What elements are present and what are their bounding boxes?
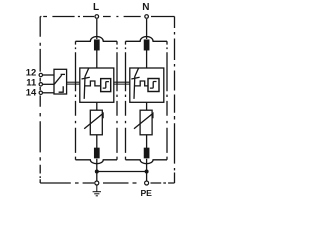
module 1 side dash-dot left: [75, 41, 77, 160]
FM fixed contact 12: [61, 73, 65, 75]
mechanical link FM to box1: [67, 82, 80, 84]
wire 11: [43, 83, 54, 85]
varistor RV2: [140, 110, 152, 135]
wire to PE bus 2: [146, 159, 148, 183]
svg-text:L: L: [93, 2, 99, 13]
module 2 side dash-dot left: [125, 41, 127, 160]
mechanical link box1 to box2: [114, 82, 130, 84]
wire to monitor box 2: [146, 50, 148, 68]
PE bus: [97, 171, 147, 173]
terminal 14: [39, 91, 42, 94]
terminal 12: [39, 73, 42, 76]
varistor RV2 diagonal: [134, 113, 153, 128]
terminal PE right: [145, 181, 149, 185]
monitoring box 2: [130, 68, 164, 102]
wire below varistor 2: [146, 135, 148, 149]
terminal 11: [39, 83, 42, 86]
wire N down: [146, 19, 148, 39]
wire to PE bus 1: [96, 159, 98, 183]
module 2 side dash-dot right: [166, 41, 168, 160]
junction node 2: [145, 170, 149, 174]
earth ground symbol: [93, 185, 101, 195]
indicator box 1: [101, 79, 111, 92]
terminal N: [145, 15, 149, 19]
indicator box 2: [148, 79, 159, 92]
terminal L: [95, 15, 99, 19]
wire to varistor 2: [146, 102, 148, 110]
disconnector F1 top (filled): [95, 40, 100, 50]
enclosure border top edge (dash-dot): [40, 16, 174, 18]
release tick 1: [82, 77, 90, 79]
wire to monitor box 1: [96, 50, 98, 68]
pulse trace 1: [85, 81, 101, 86]
module 1 side dash-dot right: [116, 41, 118, 160]
enclosure border bottom edge (dash-dot): [40, 182, 174, 184]
release tick 2: [131, 77, 139, 79]
terminal PE left: [95, 181, 99, 185]
svg-text:PE: PE: [140, 188, 152, 198]
FM blade 11-12: [54, 75, 61, 84]
FM contact box: [54, 69, 67, 94]
junction node 1: [95, 170, 99, 174]
disconnector bottom 2 (filled): [144, 148, 149, 158]
svg-text:N: N: [142, 2, 149, 13]
svg-text:14: 14: [26, 86, 37, 97]
wire L down: [96, 19, 98, 39]
disconnector F2 top (filled): [144, 40, 149, 50]
step curve 1: [103, 82, 109, 89]
switch blade 1: [84, 68, 89, 99]
disconnector bottom 1 (filled): [95, 148, 100, 158]
module 2 outline bottom edge with plug arc: [126, 160, 168, 164]
module 1 outline bottom edge with plug arc: [76, 160, 118, 164]
pulse trace 2: [135, 81, 149, 86]
FM fixed contact 14: [59, 86, 64, 92]
module 2 outline top edge with plug arc: [126, 37, 168, 42]
monitoring box 1: [80, 68, 114, 102]
wire to varistor 1: [96, 102, 98, 110]
module 1 outline top edge with plug arc: [76, 37, 118, 42]
wire 14: [43, 92, 54, 94]
switch blade 2: [134, 68, 139, 99]
enclosure border right edge (dash-dot): [174, 17, 176, 184]
varistor RV1 diagonal: [84, 113, 103, 128]
wire below varistor 1: [96, 135, 98, 149]
step curve 2: [150, 82, 157, 89]
enclosure border left edge (dash-dot): [39, 17, 41, 184]
varistor RV1: [90, 110, 102, 135]
wire 12: [43, 74, 54, 76]
